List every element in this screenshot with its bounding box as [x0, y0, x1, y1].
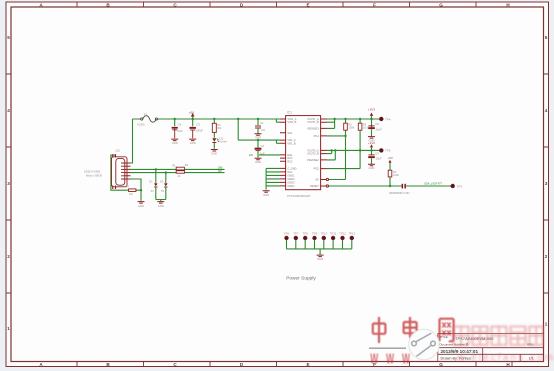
- svg-text:1M: 1M: [129, 192, 133, 196]
- svg-text:F: F: [373, 2, 376, 7]
- svg-text:W: W: [370, 350, 378, 367]
- svg-text:NC1: NC1: [287, 170, 293, 174]
- svg-text:+5V: +5V: [189, 110, 194, 114]
- svg-text:R7: R7: [126, 185, 130, 189]
- svg-text:TP13: TP13: [348, 231, 355, 235]
- svg-text:+3V3: +3V3: [368, 108, 375, 112]
- svg-text:GND: GND: [255, 160, 261, 164]
- svg-text:C_GND: C_GND: [287, 166, 296, 170]
- svg-text:TP4: TP4: [385, 117, 391, 121]
- svg-text:TPS7A8400RGRT: TPS7A8400RGRT: [287, 194, 311, 198]
- svg-text:SS: SS: [315, 178, 319, 182]
- svg-text:SDA_LVDT477: SDA_LVDT477: [424, 182, 443, 186]
- svg-text:TP10: TP10: [320, 231, 327, 235]
- svg-text:C8: C8: [375, 122, 379, 126]
- svg-text:R6: R6: [185, 163, 189, 167]
- svg-text:W: W: [386, 350, 394, 367]
- svg-text:2: 2: [545, 254, 548, 259]
- svg-text:C4: C4: [178, 122, 182, 126]
- svg-text:EN: EN: [249, 153, 253, 157]
- svg-text:F1: F1: [144, 112, 148, 116]
- svg-text:PG2: PG2: [314, 167, 320, 171]
- svg-text:5V: 5V: [161, 189, 164, 193]
- svg-text:PG1: PG1: [314, 134, 320, 138]
- svg-text:Micro USB B: Micro USB B: [86, 173, 102, 177]
- svg-text:10uF: 10uF: [177, 129, 183, 133]
- svg-text:Green: Green: [219, 140, 227, 144]
- svg-text:+5V: +5V: [388, 156, 393, 160]
- svg-text:GND: GND: [190, 141, 196, 145]
- svg-text:VIN1_B: VIN1_B: [287, 120, 296, 124]
- svg-text:VSENSE1: VSENSE1: [307, 126, 320, 130]
- svg-text:GND: GND: [263, 193, 269, 197]
- svg-text:100k: 100k: [348, 126, 354, 130]
- svg-text:1uF: 1uF: [260, 151, 265, 155]
- svg-text:G: G: [439, 362, 443, 367]
- svg-text:100uF: 100uF: [195, 129, 203, 133]
- svg-text:GND: GND: [211, 152, 217, 156]
- svg-text:DP: DP: [218, 169, 222, 173]
- svg-text:TP8: TP8: [303, 231, 309, 235]
- svg-text:GND2: GND2: [287, 177, 295, 181]
- svg-text:E: E: [306, 2, 309, 7]
- svg-text:C1: C1: [260, 121, 264, 125]
- svg-text:D3: D3: [160, 180, 164, 184]
- svg-text:GND: GND: [255, 136, 261, 140]
- svg-text:100k: 100k: [393, 173, 399, 177]
- svg-text:RESET: RESET: [310, 184, 319, 188]
- svg-text:D2: D2: [149, 180, 153, 184]
- svg-text:WM08055CT-ND: WM08055CT-ND: [389, 191, 410, 195]
- svg-text:3: 3: [7, 181, 10, 186]
- svg-text:W: W: [402, 350, 410, 367]
- svg-text:C9: C9: [375, 152, 379, 156]
- svg-text:10.0k: 10.0k: [363, 126, 370, 130]
- svg-text:GND: GND: [317, 257, 323, 261]
- svg-text:5V: 5V: [151, 189, 154, 193]
- svg-text:J15: J15: [115, 148, 120, 152]
- svg-text:5: 5: [545, 35, 548, 40]
- svg-text:301: 301: [217, 126, 222, 130]
- svg-text:5: 5: [7, 35, 10, 40]
- svg-text:1: 1: [545, 322, 548, 327]
- svg-text:3: 3: [545, 181, 548, 186]
- svg-text:TP7: TP7: [293, 231, 299, 235]
- svg-text:GND: GND: [138, 204, 144, 208]
- svg-text:GND: GND: [172, 141, 178, 145]
- svg-text:C2: C2: [261, 144, 265, 148]
- svg-text:TP6: TP6: [284, 231, 290, 235]
- svg-text:IC1: IC1: [287, 110, 292, 114]
- svg-text:TP5: TP5: [385, 149, 391, 153]
- svg-text:1: 1: [7, 326, 10, 331]
- svg-text:GND4: GND4: [287, 184, 295, 188]
- svg-text:E: E: [306, 362, 309, 367]
- svg-text:G: G: [439, 2, 443, 7]
- svg-text:RC2: RC2: [287, 159, 293, 163]
- svg-text:TP12: TP12: [339, 231, 346, 235]
- svg-text:VOUT1_B: VOUT1_B: [307, 120, 319, 124]
- svg-text:C3: C3: [196, 122, 200, 126]
- svg-text:TP11: TP11: [330, 231, 337, 235]
- svg-text:GND1: GND1: [287, 173, 295, 177]
- svg-text:VR1_B: VR1_B: [287, 141, 295, 145]
- svg-text:10uF: 10uF: [376, 128, 382, 132]
- svg-text:TP9: TP9: [312, 231, 318, 235]
- svg-text:4: 4: [545, 108, 548, 113]
- svg-text:10uF: 10uF: [376, 157, 382, 161]
- svg-text:GND3: GND3: [287, 180, 295, 184]
- svg-text:Power Supply: Power Supply: [286, 276, 316, 282]
- svg-text:SS1: SS1: [287, 131, 292, 135]
- svg-text:GND: GND: [158, 204, 164, 208]
- svg-text:VOUT2_B: VOUT2_B: [307, 152, 319, 156]
- svg-text:2: 2: [7, 254, 10, 259]
- svg-text:R5: R5: [172, 163, 176, 167]
- svg-text:VSENSE2: VSENSE2: [307, 158, 320, 162]
- svg-text:+1V2: +1V2: [368, 141, 375, 145]
- svg-text:TP3: TP3: [457, 184, 463, 188]
- svg-text:4: 4: [7, 108, 10, 113]
- svg-text:1uF: 1uF: [261, 128, 266, 132]
- svg-text:F1206: F1206: [137, 123, 145, 127]
- svg-text:GND: GND: [369, 166, 375, 170]
- svg-text:w.elecfans.com: w.elecfans.com: [457, 352, 554, 363]
